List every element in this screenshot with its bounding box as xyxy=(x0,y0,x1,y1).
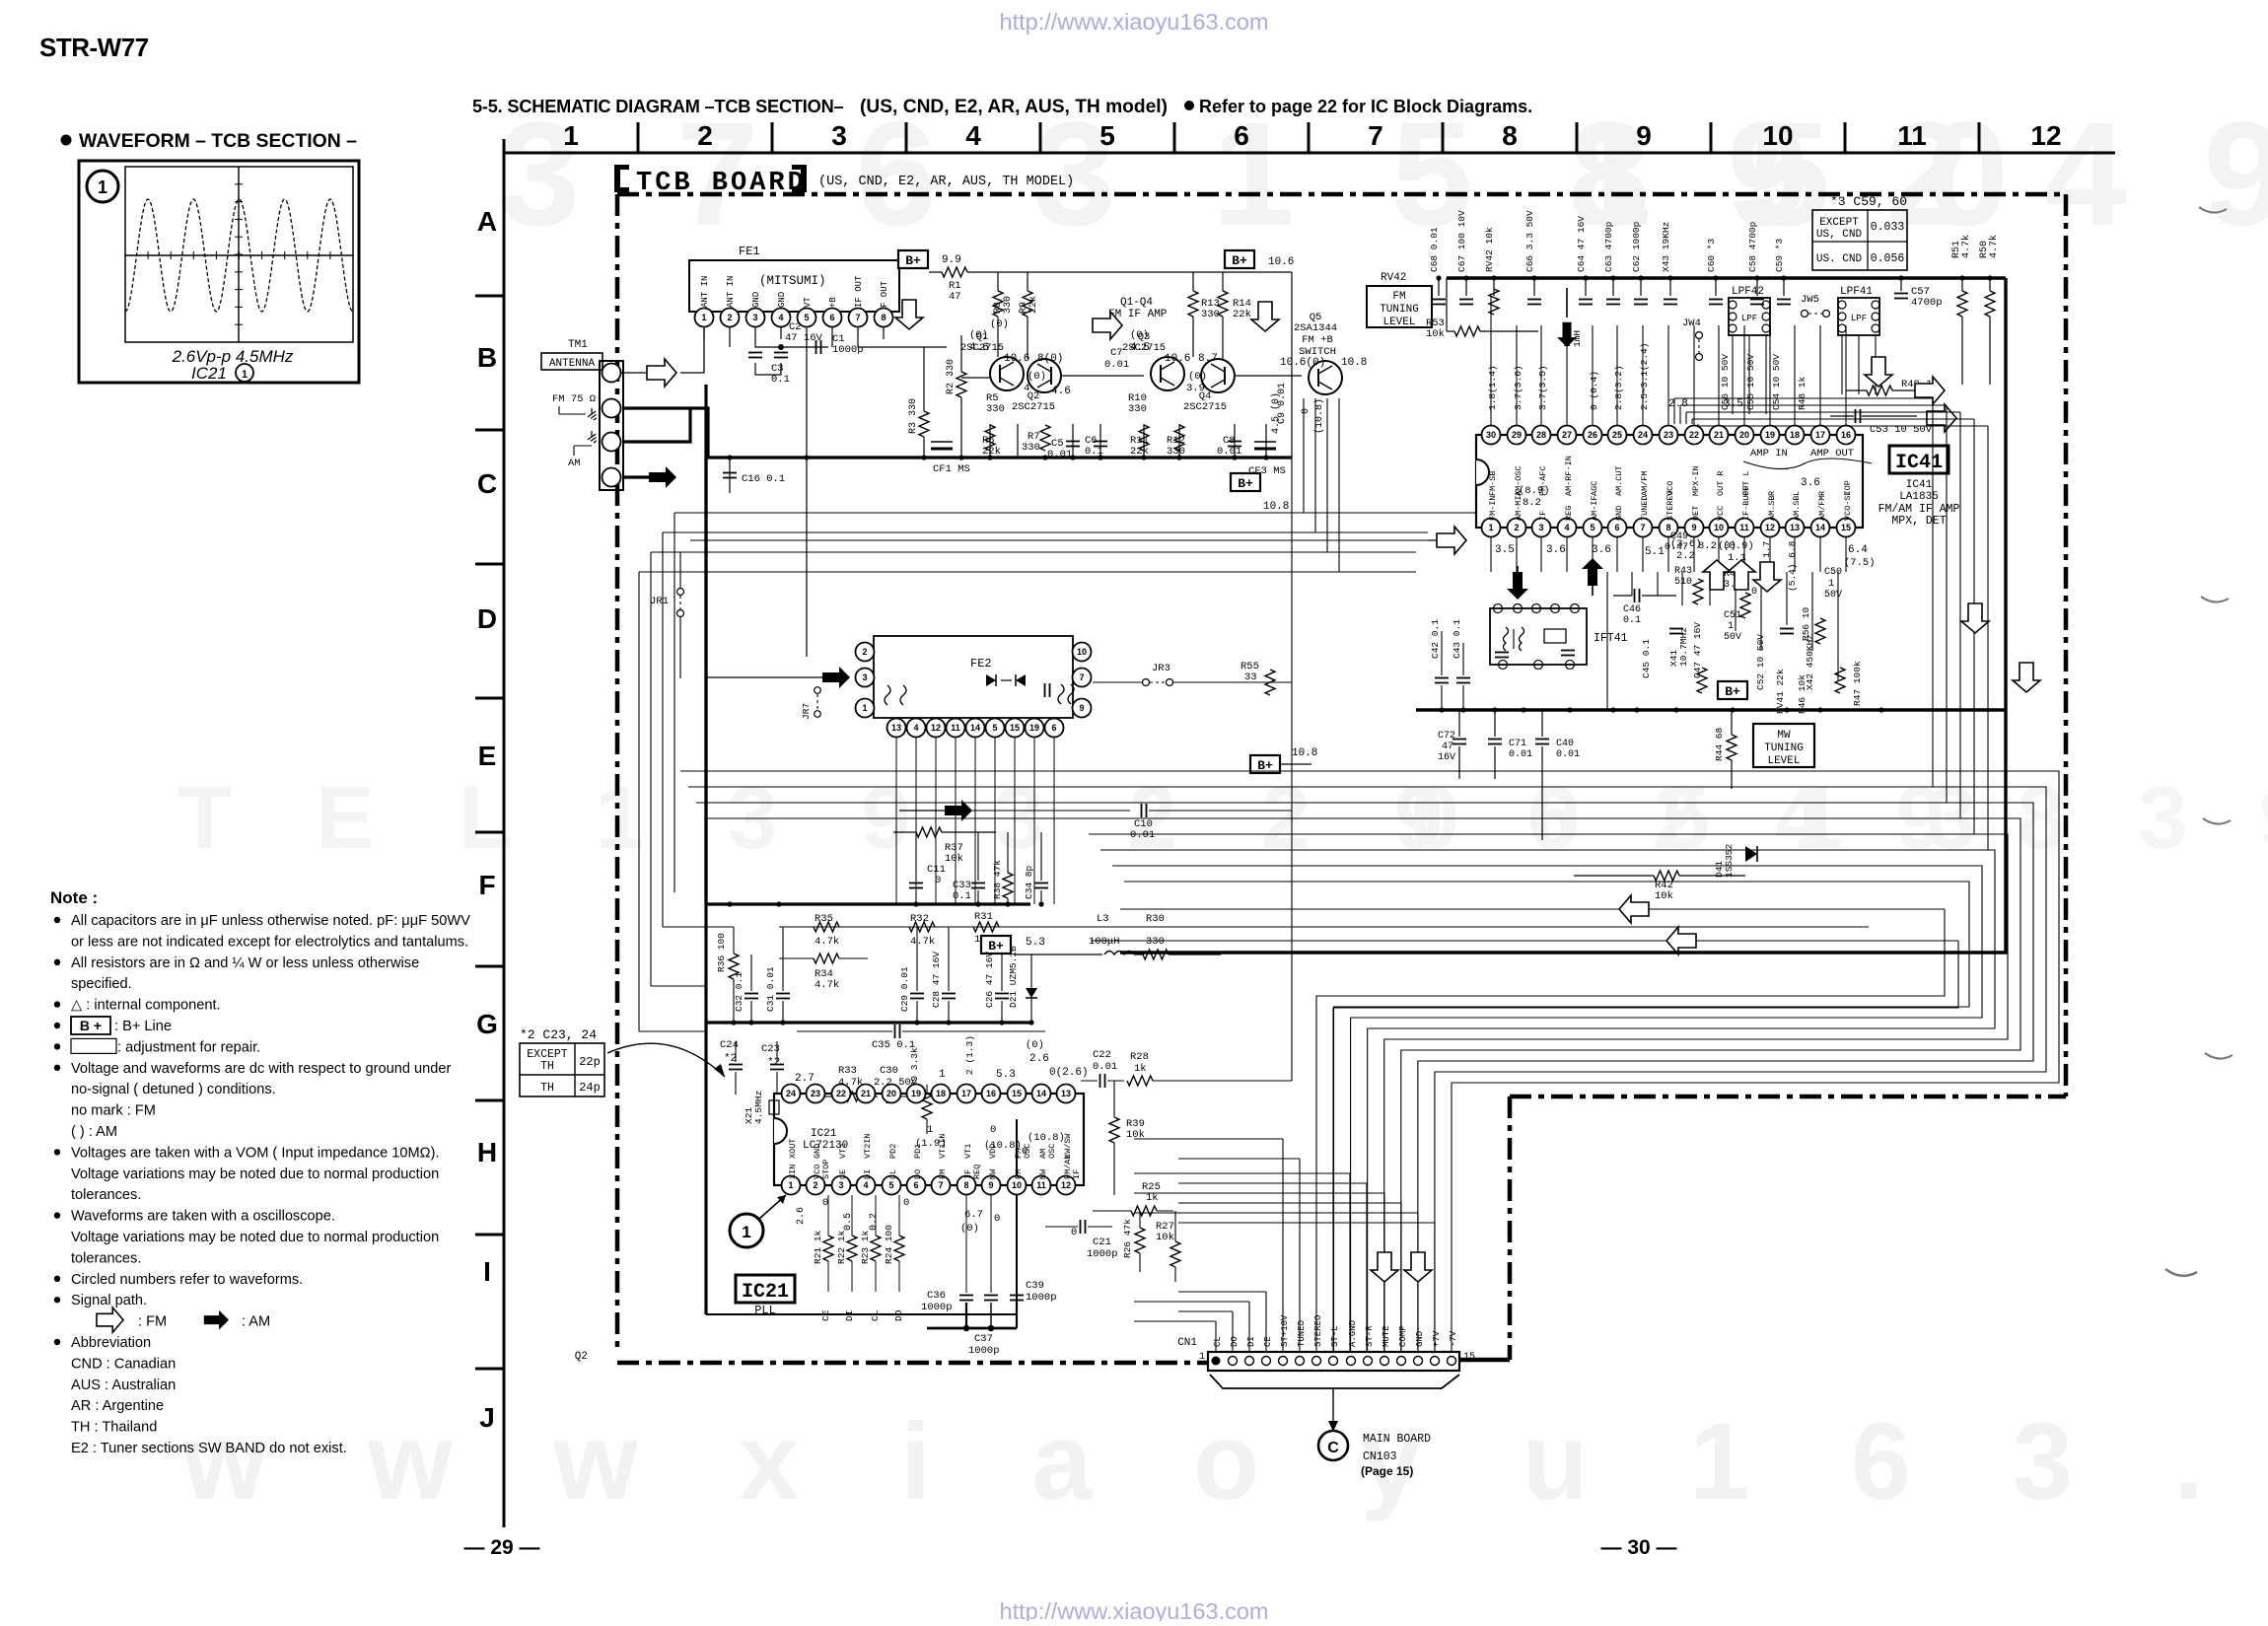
svg-text:19: 19 xyxy=(1029,723,1039,733)
wire IC41 pin drop xyxy=(1657,572,1659,596)
wires below IC41 pins xyxy=(1490,537,1492,572)
svg-text:4.5: 4.5 xyxy=(1130,342,1150,354)
svg-text:C64 47 16V: C64 47 16V xyxy=(1576,216,1587,272)
note FM arrow xyxy=(97,1308,123,1332)
wire staircase xyxy=(1089,834,2008,1352)
svg-text:6: 6 xyxy=(1614,523,1619,532)
IC41 pin 23 xyxy=(1660,426,1678,445)
svg-text:3: 3 xyxy=(862,672,867,682)
wire drop xyxy=(1697,424,1699,426)
FM arrow mid IF strip xyxy=(1093,312,1122,339)
svg-text:12: 12 xyxy=(1765,523,1775,532)
svg-text:C32 0.1: C32 0.1 xyxy=(734,972,744,1012)
svg-text:1000p: 1000p xyxy=(921,1302,953,1313)
FE2 pin 10 xyxy=(1073,643,1092,662)
wire feed xyxy=(1178,1158,1300,1160)
svg-text:All capacitors are in μF unles: All capacitors are in μF unless otherwis… xyxy=(71,913,470,929)
signal path AM arrow xyxy=(1582,558,1603,586)
FE1 pin 3 xyxy=(746,309,765,327)
front end FE1 (MITSUMI) xyxy=(689,260,899,312)
svg-text:FM-IN: FM-IN xyxy=(1488,495,1498,521)
table EXCEPT TH / 22p 24p xyxy=(520,1043,604,1096)
svg-text:20: 20 xyxy=(886,1089,896,1098)
svg-text:ST-L: ST-L xyxy=(1330,1325,1340,1347)
wire staircase xyxy=(704,818,2020,1352)
svg-text:1: 1 xyxy=(1199,1352,1205,1363)
svg-text:C54 10 50V: C54 10 50V xyxy=(1771,354,1782,410)
svg-text:33: 33 xyxy=(1244,672,1257,683)
IC21 pin 23 xyxy=(807,1085,825,1103)
svg-text:22: 22 xyxy=(836,1089,846,1098)
FE1 pin 6 xyxy=(823,309,842,327)
B+ line marker xyxy=(1225,250,1254,268)
svg-text:330: 330 xyxy=(986,403,1005,415)
IC41 pin 29 xyxy=(1508,426,1526,445)
svg-text:3: 3 xyxy=(831,120,847,151)
svg-text:1k: 1k xyxy=(1134,1063,1147,1075)
IC21 pin 12 xyxy=(1057,1176,1076,1195)
ANTENNA boxed label xyxy=(541,353,602,370)
IC41 pin 14 xyxy=(1811,519,1830,537)
IC41 pin 21 xyxy=(1710,426,1729,445)
wire +B line xyxy=(831,339,833,347)
svg-text:27: 27 xyxy=(1562,430,1572,440)
svg-text:0.01: 0.01 xyxy=(1509,749,1532,760)
signal path FM arrow xyxy=(1753,562,1781,592)
antenna terminal 3 xyxy=(602,433,621,452)
FE2 pin 15 xyxy=(1006,719,1025,738)
note B+ symbol xyxy=(71,1017,110,1034)
svg-text:specified.: specified. xyxy=(71,976,132,992)
svg-text:330: 330 xyxy=(1128,403,1147,415)
FE1 pin 8 xyxy=(875,309,893,327)
B+ line marker xyxy=(1718,681,1747,699)
connector destination circle C xyxy=(1318,1431,1348,1460)
FE1 pin 4 xyxy=(772,309,791,327)
svg-text:7: 7 xyxy=(1079,672,1084,682)
svg-text:(5.4) 6.8: (5.4) 6.8 xyxy=(1787,540,1798,592)
B+ line marker xyxy=(1231,473,1260,491)
svg-text:1: 1 xyxy=(563,120,579,151)
svg-text:(0): (0) xyxy=(1026,1039,1044,1051)
wire IF OUT down xyxy=(858,339,947,347)
svg-text:2SC2715: 2SC2715 xyxy=(1012,401,1055,413)
svg-text:16V: 16V xyxy=(1438,752,1455,763)
svg-text:L3: L3 xyxy=(1097,913,1109,925)
svg-text:US, CND: US, CND xyxy=(1816,229,1863,241)
wire horizontal top right xyxy=(1692,418,1974,420)
wire vertical right bundle xyxy=(1987,426,1989,850)
svg-text:CL: CL xyxy=(870,1309,881,1321)
FE2 pin 1 xyxy=(856,699,875,718)
svg-text:R35: R35 xyxy=(815,913,833,925)
svg-text:23: 23 xyxy=(1664,430,1673,440)
svg-text:(0): (0) xyxy=(1188,371,1207,383)
svg-text:C59 *3: C59 *3 xyxy=(1774,238,1785,272)
IC41 designation box xyxy=(1889,446,1949,473)
IC41 pin 25 xyxy=(1608,426,1627,445)
svg-text:△ : internal component.: △ : internal component. xyxy=(71,998,221,1014)
svg-text:JW4: JW4 xyxy=(1682,318,1701,329)
svg-text:1: 1 xyxy=(1488,523,1493,532)
svg-text:8: 8 xyxy=(881,313,886,322)
grid column tick xyxy=(1039,122,1042,153)
IC21 pin 4 xyxy=(857,1176,876,1195)
svg-text:IF-BUFF: IF-BUFF xyxy=(1741,485,1751,521)
svg-text:1000p: 1000p xyxy=(1087,1248,1118,1260)
svg-text:2SA1344: 2SA1344 xyxy=(1294,322,1337,334)
IC21 pin 19 xyxy=(907,1085,926,1103)
svg-text:TH : Thailand: TH : Thailand xyxy=(71,1420,157,1436)
FE1 pin 1 xyxy=(695,309,714,327)
svg-text:3.6: 3.6 xyxy=(1592,544,1611,556)
svg-text:3.7(3.5): 3.7(3.5) xyxy=(1537,365,1548,410)
svg-text:C66 3.3 50V: C66 3.3 50V xyxy=(1524,210,1535,272)
svg-text:IF OUT: IF OUT xyxy=(854,275,864,308)
svg-text:FM: FM xyxy=(1014,1169,1024,1179)
IC21 pin 14 xyxy=(1032,1085,1051,1103)
svg-text:23: 23 xyxy=(811,1089,820,1098)
svg-text:FM: FM xyxy=(938,1169,948,1179)
svg-text:XIN: XIN xyxy=(788,1165,798,1179)
svg-text:1: 1 xyxy=(927,1124,933,1136)
svg-text:10.8: 10.8 xyxy=(1292,747,1317,759)
IC21 pin 17 xyxy=(957,1085,976,1103)
svg-text:CN1: CN1 xyxy=(1177,1337,1197,1349)
svg-text:+7V: +7V xyxy=(1432,1330,1442,1347)
svg-text:4.7k: 4.7k xyxy=(815,979,839,991)
svg-text:VCC: VCC xyxy=(1716,506,1726,521)
svg-text:Abbreviation: Abbreviation xyxy=(71,1335,151,1351)
IC21 pin 1 xyxy=(782,1176,801,1195)
svg-text:OUT R: OUT R xyxy=(1716,470,1726,496)
FE2 pin 19 xyxy=(1026,719,1044,738)
svg-text:R32: R32 xyxy=(910,913,929,925)
board border bottom-left (Q2 line) xyxy=(617,1361,1208,1366)
svg-text:2: 2 xyxy=(813,1180,817,1190)
svg-text:0: 0 xyxy=(1751,587,1757,598)
capacitor C10 0.01 xyxy=(1142,804,1147,817)
svg-text:2SC2715: 2SC2715 xyxy=(1183,401,1227,413)
wire drop xyxy=(1673,398,1675,424)
FM arrow to right edge 2 xyxy=(1927,404,1956,432)
svg-text:26: 26 xyxy=(1588,430,1597,440)
svg-text:LPF41: LPF41 xyxy=(1840,286,1873,298)
svg-text:CND : Canadian: CND : Canadian xyxy=(71,1356,176,1372)
svg-text:C22: C22 xyxy=(1093,1049,1111,1061)
svg-text:29: 29 xyxy=(1512,430,1522,440)
svg-text:STR-W77: STR-W77 xyxy=(39,33,149,62)
capacitor C16 0.1 xyxy=(729,458,731,493)
B+ line marker xyxy=(1250,755,1280,773)
svg-text:1: 1 xyxy=(939,1069,946,1081)
wire feed xyxy=(1178,1310,1233,1312)
graticule vertical axis xyxy=(238,167,240,342)
svg-text:21: 21 xyxy=(861,1089,871,1098)
svg-text:6: 6 xyxy=(1051,723,1056,733)
wire CN1 riser xyxy=(1265,1292,1267,1352)
svg-text:1.8(1.4): 1.8(1.4) xyxy=(1487,365,1498,410)
svg-text:10: 10 xyxy=(1762,120,1793,151)
signal path FM arrow xyxy=(1728,560,1755,590)
svg-text:8(0): 8(0) xyxy=(1037,353,1063,365)
svg-text:DI: DI xyxy=(1246,1336,1256,1347)
svg-text:R28: R28 xyxy=(1130,1051,1149,1063)
IC41 pin 7 xyxy=(1634,519,1653,537)
svg-text:C30: C30 xyxy=(880,1065,898,1077)
svg-text:9: 9 xyxy=(988,1180,993,1190)
svg-text:10.8: 10.8 xyxy=(1341,357,1367,369)
svg-text:B+: B+ xyxy=(1725,684,1740,699)
svg-text:PD1: PD1 xyxy=(913,1144,923,1159)
wire xyxy=(639,1030,706,1032)
svg-text:tolerances.: tolerances. xyxy=(71,1187,141,1203)
svg-text:5: 5 xyxy=(1590,523,1595,532)
svg-text:F OUT: F OUT xyxy=(880,280,889,308)
grid column tick xyxy=(1710,122,1713,153)
grid column tick xyxy=(1978,122,1981,153)
svg-text:( ) : AM: ( ) : AM xyxy=(71,1124,117,1140)
svg-text:C28 47 16V: C28 47 16V xyxy=(931,952,942,1008)
svg-text:IFT41: IFT41 xyxy=(1594,632,1628,645)
grid row tick xyxy=(475,295,504,298)
svg-text:G: G xyxy=(476,1009,498,1039)
wire xyxy=(1875,335,1877,394)
IC21 designation box xyxy=(736,1275,795,1303)
IC41 pin 9 xyxy=(1685,519,1704,537)
IC21 pin 6 xyxy=(907,1176,926,1195)
ground xyxy=(588,408,597,420)
grid column tick xyxy=(637,122,640,153)
svg-text:50V: 50V xyxy=(1724,632,1741,643)
ground bus under FE2 xyxy=(706,902,1030,905)
svg-text:ANTENNA: ANTENNA xyxy=(549,358,596,370)
svg-text:C39: C39 xyxy=(1026,1280,1044,1292)
IC41 pin 1 xyxy=(1482,519,1501,537)
wire vertical right bundle xyxy=(1932,398,1934,787)
svg-text:9: 9 xyxy=(1691,523,1696,532)
CF1 / CF3 ceramic filters xyxy=(931,448,953,451)
svg-text:VT: VT xyxy=(803,297,813,308)
wire feed xyxy=(1134,1301,1249,1303)
svg-text:3: 3 xyxy=(838,1180,843,1190)
wire horizontal top right xyxy=(1686,411,1960,413)
svg-text:R2 330: R2 330 xyxy=(946,359,957,394)
svg-text:DI: DI xyxy=(844,1310,855,1321)
svg-text:10: 10 xyxy=(1077,647,1087,657)
svg-text:15: 15 xyxy=(1463,1352,1475,1363)
antenna terminal 4 xyxy=(602,468,621,487)
svg-text:C62 1000p: C62 1000p xyxy=(1631,221,1642,272)
svg-text:10: 10 xyxy=(1714,523,1724,532)
IC41 pin 22 xyxy=(1685,426,1704,445)
IC41 pin 17 xyxy=(1811,426,1830,445)
svg-text:C43 0.1: C43 0.1 xyxy=(1452,619,1462,659)
svg-text:3.7(3.6): 3.7(3.6) xyxy=(1513,365,1524,410)
IC21 body xyxy=(774,1094,1084,1185)
wire AM antenna xyxy=(623,475,649,478)
wire feed xyxy=(1178,1222,1435,1224)
wire staircase xyxy=(696,803,2033,1352)
svg-text:B: B xyxy=(477,342,497,373)
svg-text:FM: FM xyxy=(1392,291,1405,303)
grid row tick xyxy=(475,563,504,566)
FE2 pin 9 xyxy=(1073,699,1092,718)
svg-text:LPF42: LPF42 xyxy=(1732,286,1764,298)
AM signal arrow from antenna xyxy=(649,466,676,488)
svg-text:LEVEL: LEVEL xyxy=(1767,755,1800,767)
svg-text:TUNED: TUNED xyxy=(1297,1320,1307,1347)
wire horizontal top right xyxy=(1698,425,1988,427)
svg-text:VT2IN: VT2IN xyxy=(863,1133,873,1159)
IC41 pin 10 xyxy=(1710,519,1729,537)
svg-text:3.9: 3.9 xyxy=(1186,383,1205,394)
svg-text:0.01: 0.01 xyxy=(1130,829,1155,841)
svg-text:: B+ Line: : B+ Line xyxy=(114,1019,172,1034)
svg-text:Voltage variations may be note: Voltage variations may be noted due to n… xyxy=(71,1166,439,1182)
IC41 pin 4 xyxy=(1558,519,1577,537)
front end FE2 outline xyxy=(874,636,1073,718)
svg-text:0.056: 0.056 xyxy=(1871,252,1905,265)
svg-text:Note :: Note : xyxy=(50,888,98,907)
wire xyxy=(662,532,664,927)
svg-text:AM: AM xyxy=(568,458,581,469)
svg-text:R26 47k: R26 47k xyxy=(1122,1219,1133,1258)
svg-text:19: 19 xyxy=(911,1089,921,1098)
TCB BOARD left bracket xyxy=(614,165,629,192)
svg-text:DO: DO xyxy=(913,1169,923,1179)
svg-text:10.6: 10.6 xyxy=(1165,353,1190,365)
IC21 pin 13 xyxy=(1057,1085,1076,1103)
svg-text:or less are not indicated exce: or less are not indicated except for ele… xyxy=(71,934,468,950)
misc wires Q area xyxy=(961,377,990,379)
svg-text:0 (0.4): 0 (0.4) xyxy=(1589,371,1599,410)
svg-text:CL: CL xyxy=(888,1169,898,1179)
svg-text:5.3: 5.3 xyxy=(996,1069,1016,1081)
svg-text:11: 11 xyxy=(951,723,960,733)
signal path FM arrow xyxy=(1404,1252,1432,1282)
svg-text:FM 75 Ω: FM 75 Ω xyxy=(552,393,596,405)
svg-text:All resistors are in Ω and ¼ W: All resistors are in Ω and ¼ W or less u… xyxy=(71,955,419,971)
svg-text:C31 0.01: C31 0.01 xyxy=(765,966,776,1012)
svg-text:R44 68: R44 68 xyxy=(1714,727,1725,761)
wire xyxy=(1732,335,1734,414)
waveform sine trace xyxy=(125,199,353,312)
svg-text:X43 19KHz: X43 19KHz xyxy=(1661,222,1671,272)
signal path FM arrow xyxy=(1371,1252,1398,1282)
svg-text:AMP IN: AMP IN xyxy=(1750,448,1788,460)
wire VT line down xyxy=(806,339,808,657)
svg-text:12: 12 xyxy=(1061,1180,1071,1190)
svg-text:MPX-IN: MPX-IN xyxy=(1691,465,1701,496)
svg-text:0: 0 xyxy=(903,1197,909,1209)
svg-text:OSC: OSC xyxy=(1023,1144,1032,1159)
grid column axis line xyxy=(504,152,2115,155)
svg-text:10.6: 10.6 xyxy=(1268,256,1294,268)
svg-text:GND: GND xyxy=(1614,506,1624,521)
B+ line marker xyxy=(898,250,928,268)
svg-text:Signal path.: Signal path. xyxy=(71,1293,147,1308)
svg-text:R: R xyxy=(1817,491,1827,496)
wire antenna to FE1 pin1 xyxy=(621,372,646,374)
svg-text:47: 47 xyxy=(1442,742,1453,752)
grid column tick xyxy=(1576,122,1579,153)
IC41 pin 11 xyxy=(1736,519,1754,537)
svg-text:R3 330: R3 330 xyxy=(908,398,919,434)
board border right xyxy=(2064,194,2069,1096)
svg-text:JR1: JR1 xyxy=(650,596,669,607)
svg-text:C71: C71 xyxy=(1509,739,1526,749)
IC21 pin 21 xyxy=(857,1085,876,1103)
svg-text:MW: MW xyxy=(1777,730,1791,742)
svg-text:12: 12 xyxy=(2030,120,2061,151)
svg-text:B+: B+ xyxy=(905,253,921,268)
svg-text:(10.8): (10.8) xyxy=(1028,1132,1065,1144)
svg-text:10k: 10k xyxy=(1426,328,1445,340)
wire xyxy=(663,926,734,928)
svg-text:AMP OUT: AMP OUT xyxy=(1810,448,1854,460)
IC41 pin 3 xyxy=(1532,519,1551,537)
svg-text:LPF: LPF xyxy=(1741,314,1757,323)
svg-text:0: 0 xyxy=(994,1213,1000,1225)
svg-text:B+: B+ xyxy=(988,939,1004,954)
svg-text:MPX, DET: MPX, DET xyxy=(1891,515,1946,528)
svg-text:CN103: CN103 xyxy=(1363,1450,1397,1463)
svg-text:15: 15 xyxy=(1010,723,1020,733)
wire IC41 pin drop xyxy=(1681,572,1683,605)
svg-text:R21 1k: R21 1k xyxy=(813,1230,823,1264)
svg-text:0.1: 0.1 xyxy=(1623,615,1641,626)
svg-text:REQ: REQ xyxy=(972,1165,982,1179)
svg-text:AM.SB: AM.SB xyxy=(1792,495,1802,521)
svg-text:*2: *2 xyxy=(724,1053,737,1065)
svg-text:AM.CUT: AM.CUT xyxy=(1614,465,1624,496)
svg-text:1: 1 xyxy=(862,703,867,713)
svg-text:IC21: IC21 xyxy=(191,364,227,383)
grid row tick xyxy=(475,965,504,968)
svg-text:(7.5): (7.5) xyxy=(1844,557,1876,569)
svg-text:0.01: 0.01 xyxy=(1217,446,1241,458)
svg-text:3: 3 xyxy=(752,313,757,322)
svg-text:0.1: 0.1 xyxy=(771,374,790,386)
wire xyxy=(674,891,779,893)
svg-text:0: 0 xyxy=(822,1197,828,1209)
wire thick row F + right riser xyxy=(1120,278,2006,953)
wire IC41 pin drop xyxy=(1631,572,1633,596)
svg-text:STEREO: STEREO xyxy=(1313,1315,1323,1347)
board border left xyxy=(615,194,620,1353)
top B+ bus right section xyxy=(1447,276,2006,279)
svg-text:24p: 24p xyxy=(579,1081,601,1095)
FE2 pin 11 xyxy=(947,719,965,738)
FE2 pin 14 xyxy=(966,719,985,738)
svg-text:(0): (0) xyxy=(969,329,988,341)
svg-text:1000p: 1000p xyxy=(968,1345,1000,1357)
FE1 pin 5 xyxy=(798,309,816,327)
svg-text:5: 5 xyxy=(1099,120,1115,151)
svg-text:21: 21 xyxy=(1714,430,1724,440)
svg-text:9: 9 xyxy=(1079,703,1084,713)
wires above IC41 pins xyxy=(1490,296,1492,425)
capacitor C1 1000p xyxy=(816,340,821,354)
svg-text:4: 4 xyxy=(778,313,783,322)
svg-text:C68 0.01: C68 0.01 xyxy=(1429,227,1440,272)
FE2 pin risers down to bus xyxy=(895,738,897,904)
wire xyxy=(1314,398,1316,532)
wire xyxy=(1303,398,1305,513)
svg-text:C50: C50 xyxy=(1824,567,1842,578)
IC41 pin 8 xyxy=(1660,519,1678,537)
